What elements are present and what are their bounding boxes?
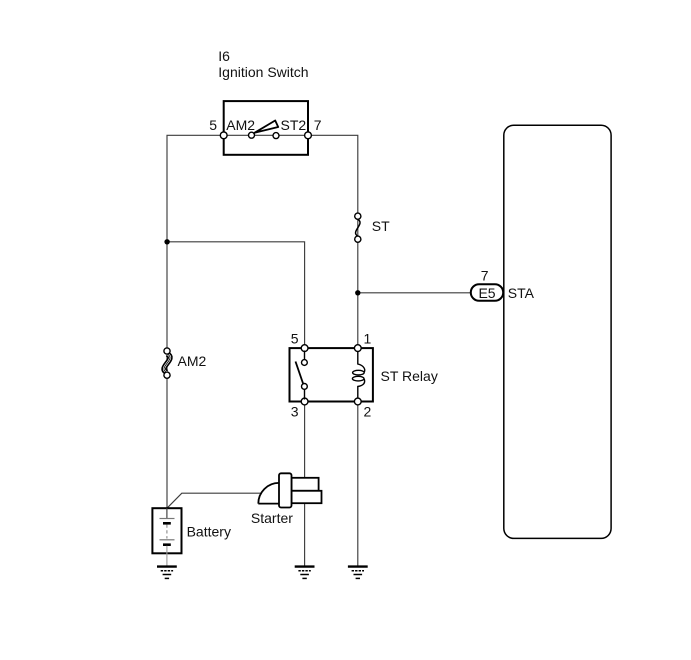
svg-text:Starter: Starter [251, 510, 293, 526]
relay internal stub pin5 to contact [304, 351, 306, 361]
ground under starter [295, 567, 315, 579]
node: junction dot on left wire [164, 239, 169, 244]
wire: relay pin2 down to ground [357, 402, 359, 567]
wire: ignition pin5 to left vertical run down to battery [167, 135, 224, 508]
wire: junction to relay pin5 [167, 242, 305, 348]
svg-text:7: 7 [481, 267, 489, 283]
svg-text:2: 2 [364, 404, 372, 420]
ground under battery [157, 567, 177, 579]
relay pin 3 circle [301, 398, 308, 405]
ignition switch I6 box [224, 101, 308, 155]
svg-text:5: 5 [209, 117, 217, 133]
svg-text:ST Relay: ST Relay [381, 368, 438, 384]
wire: starter down to ground [304, 503, 306, 566]
switch lever in ignition switch [255, 121, 279, 133]
relay pin 2 circle [354, 398, 361, 405]
svg-text:1: 1 [364, 330, 372, 346]
svg-text:E5: E5 [478, 285, 495, 301]
relay internal stub contact to pin3 [304, 389, 306, 400]
relay pin 5 circle [301, 345, 308, 352]
svg-text:5: 5 [291, 330, 299, 346]
battery plate short thick upper [163, 522, 171, 525]
battery plate short thick lower [163, 543, 171, 546]
relay switch contact lower circle [302, 384, 308, 390]
battery internal wire from top [166, 508, 168, 518]
connector E5 oval [471, 284, 503, 301]
svg-text:Ignition Switch: Ignition Switch [218, 64, 308, 80]
starter solenoid upper rect [292, 478, 319, 491]
svg-text:I6: I6 [218, 48, 230, 64]
wire: node to E5 connector [358, 292, 471, 294]
wire: ignition pin7 right then down to relay pin1 [308, 135, 358, 348]
wire: through ignition switch box [224, 134, 308, 136]
svg-text:7: 7 [314, 117, 322, 133]
svg-text:ST2: ST2 [281, 117, 307, 133]
wire: battery to starter motor [167, 493, 261, 508]
svg-text:AM2: AM2 [178, 353, 207, 369]
battery wire down to ground [166, 546, 168, 567]
ECU box [504, 125, 611, 538]
contact ST2 circle [273, 133, 279, 139]
svg-text:ST: ST [372, 218, 390, 234]
starter motor arc [258, 483, 279, 504]
starter solenoid lower rect [292, 491, 322, 503]
relay pin 1 circle [354, 345, 361, 352]
relay switch contact upper circle [302, 360, 308, 366]
fusible link AM2 [164, 348, 170, 378]
fuse ST [355, 213, 361, 242]
battery plate long upper [160, 518, 175, 520]
pin 5 terminal circle on ignition box [220, 132, 227, 139]
relay ST Relay box [290, 348, 373, 401]
svg-text:Battery: Battery [187, 524, 231, 540]
battery dashed center [166, 525, 168, 539]
starter brush rect [279, 473, 292, 507]
ground under relay pin2 wire [348, 567, 368, 579]
relay coil [352, 351, 364, 398]
svg-text:AM2: AM2 [226, 117, 255, 133]
svg-text:3: 3 [291, 404, 299, 420]
svg-text:STA: STA [508, 285, 535, 301]
battery box [152, 508, 181, 553]
battery plate long lower [160, 539, 175, 541]
wire: relay pin3 down to starter [304, 402, 306, 478]
contact AM2 circle [249, 132, 255, 138]
relay switch lever [296, 362, 304, 384]
node: junction dot to E5 [355, 290, 360, 295]
pin 7 terminal circle on ignition box [305, 132, 312, 139]
